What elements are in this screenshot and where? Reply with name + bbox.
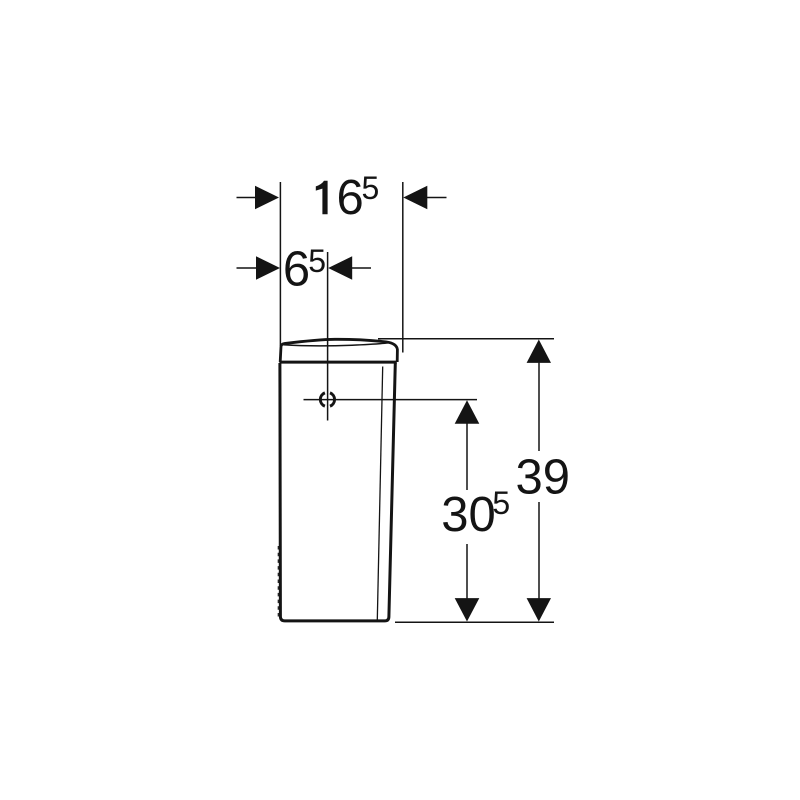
dimension 6.5 left arrowhead [256, 256, 280, 280]
svg-text:5: 5 [308, 243, 326, 279]
dimension 30.5 line upper segment [466, 424, 468, 491]
dimension 30.5 line lower segment [466, 544, 468, 599]
dimension 39 bottom arrowhead (down) [527, 598, 551, 621]
dimension 30.5 bottom arrowhead (down) [455, 598, 480, 621]
cistern inner edge thin line [377, 367, 382, 621]
dimension 39 line upper segment [538, 363, 540, 451]
dimension 39 line lower segment [538, 502, 540, 599]
dimension 39 top arrowhead (up) [527, 340, 551, 363]
extension line left (shared by 16.5 and 6.5) [279, 182, 281, 346]
cistern lid outline [280, 339, 397, 362]
hole right arc [330, 393, 335, 406]
hole horizontal center line [304, 399, 478, 401]
svg-text:5: 5 [362, 170, 380, 206]
dimension 16.5 right arrow tail [427, 197, 447, 199]
dimension 6.5 right arrow tail [352, 267, 371, 269]
cistern lid bottom edge [279, 361, 396, 364]
cistern lid inner arc [283, 343, 388, 346]
bottom extension line [395, 621, 554, 623]
hidden dashed line lower left [277, 546, 279, 619]
dimension 16.5 right arrowhead [403, 186, 427, 210]
svg-text:6: 6 [283, 243, 310, 297]
cistern body outline [280, 363, 395, 621]
hole left arc [320, 393, 325, 406]
svg-text:6: 6 [337, 171, 364, 225]
extension/center line right of 6.5 (through lid and hole) [327, 252, 329, 421]
label 16 digit 1 (custom glyph) [316, 181, 328, 214]
svg-text:39: 39 [516, 451, 571, 505]
svg-text:30: 30 [441, 488, 496, 542]
dimension 6.5 right arrowhead [328, 256, 352, 280]
dimension 6.5 left arrow tail [237, 267, 258, 269]
dimension 16.5 left arrowhead [255, 186, 279, 210]
extension line right of 16.5 [402, 182, 404, 353]
top extension line (39) [378, 338, 554, 340]
dimension 30.5 top arrowhead (up) [455, 400, 480, 423]
dimension 16.5 left arrow tail [237, 197, 257, 199]
svg-text:5: 5 [492, 485, 510, 521]
